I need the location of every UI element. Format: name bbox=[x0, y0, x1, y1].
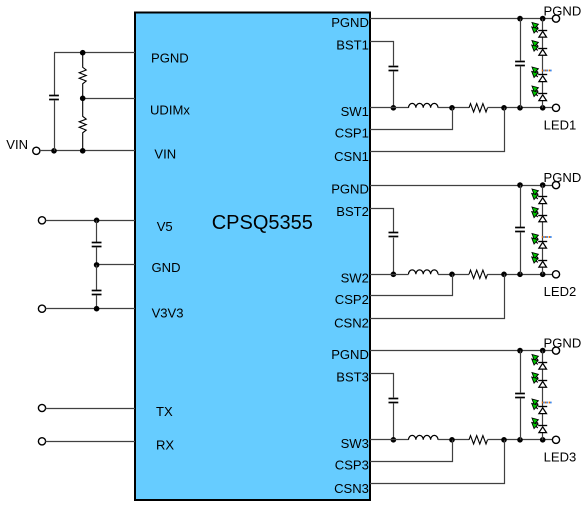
svg-text:CSN1: CSN1 bbox=[334, 149, 369, 164]
junction PGND rail / C-OUT1 bbox=[517, 16, 523, 22]
junction C-OUT3 / output bbox=[517, 437, 523, 443]
capacitor C-IN bbox=[54, 53, 56, 96]
LED D1.4 bbox=[532, 86, 548, 101]
junction VIN / C-IN bbox=[51, 148, 57, 154]
svg-text:BST2: BST2 bbox=[336, 204, 369, 219]
wire SW1 bbox=[370, 107, 409, 109]
capacitor C-OUT1 bbox=[520, 19, 522, 61]
junction UDIMx bbox=[80, 96, 86, 102]
svg-text:PGND: PGND bbox=[544, 336, 582, 351]
capacitor C-OUT2 bbox=[520, 185, 522, 227]
wire C-BST2 to SW2 bbox=[393, 238, 395, 275]
terminal PGND ch1 bbox=[552, 15, 559, 22]
wire CSN1 bbox=[370, 108, 505, 152]
terminal V3V3 bbox=[38, 305, 45, 312]
svg-text:CSP3: CSP3 bbox=[335, 458, 369, 473]
svg-text:PGND: PGND bbox=[331, 15, 369, 30]
wire PGND rail ch2 bbox=[370, 185, 553, 187]
junction BST cap / SW1 bbox=[391, 105, 397, 111]
junction PGND rail / C-OUT2 bbox=[517, 182, 523, 188]
wire BST1 bbox=[370, 42, 394, 66]
capacitor C-V5 bbox=[96, 220, 98, 242]
svg-text:RX: RX bbox=[156, 438, 174, 453]
wire PGND rail ch1 bbox=[370, 18, 553, 20]
ellipsis (more LEDs) ch2 bbox=[542, 236, 552, 238]
svg-text:PGND: PGND bbox=[544, 170, 582, 185]
wire L3 to R-CS3 bbox=[438, 439, 469, 441]
wire SW3 bbox=[370, 439, 409, 441]
LED D2.3 bbox=[532, 234, 548, 249]
wire V5 bbox=[45, 220, 135, 222]
svg-text:PGND: PGND bbox=[331, 181, 369, 196]
resistor R-CS3 (current sense) bbox=[469, 436, 488, 444]
junction C-OUT2 / output bbox=[517, 272, 523, 278]
svg-text:PGND: PGND bbox=[544, 4, 582, 19]
LED D2.2 bbox=[532, 207, 548, 222]
svg-text:PGND: PGND bbox=[331, 347, 369, 362]
wire RX bbox=[45, 441, 135, 443]
terminal PGND ch3 bbox=[552, 347, 559, 354]
junction LED string 2 anode bbox=[540, 272, 546, 278]
wire BST3 bbox=[370, 374, 394, 398]
inductor L1 bbox=[409, 103, 439, 107]
wire L2 to R-CS2 bbox=[438, 274, 469, 276]
LED D3.2 bbox=[532, 373, 548, 388]
junction PGND rail / LED string 2 bbox=[540, 182, 546, 188]
terminal LED3 bbox=[552, 436, 559, 443]
junction SW2 / CSP2 bbox=[449, 272, 455, 278]
wire VIN bbox=[40, 150, 135, 152]
capacitor C-OUT3 bbox=[520, 351, 522, 393]
svg-text:CSP2: CSP2 bbox=[335, 292, 369, 307]
junction PGND rail / LED string 3 bbox=[540, 348, 546, 354]
svg-text:LED1: LED1 bbox=[544, 118, 577, 133]
ellipsis (more LEDs) ch3 bbox=[542, 402, 552, 404]
terminal LED2 bbox=[552, 271, 559, 278]
junction BST cap / SW2 bbox=[391, 272, 397, 278]
wire BST2 bbox=[370, 209, 394, 233]
capacitor C-BST2 bbox=[389, 232, 399, 234]
junction LED string 1 anode bbox=[540, 105, 546, 111]
junction CSN3 sense node bbox=[501, 437, 507, 443]
wire R-CS1 to LED1 bbox=[488, 107, 553, 109]
junction V5 / C-V5 bbox=[94, 218, 100, 224]
svg-text:CSN2: CSN2 bbox=[334, 316, 369, 331]
junction CSN1 sense node bbox=[501, 105, 507, 111]
junction CSN2 sense node bbox=[501, 272, 507, 278]
wire CSP2 bbox=[370, 274, 453, 295]
junction C-OUT1 / output bbox=[517, 105, 523, 111]
junction VIN / R-UDIM-low bbox=[80, 148, 86, 154]
capacitor C-V3V3 bbox=[96, 265, 98, 290]
wire CSP1 bbox=[370, 108, 453, 130]
svg-text:LED2: LED2 bbox=[544, 284, 577, 299]
resistor R-CS2 (current sense) bbox=[469, 270, 488, 278]
wire V3V3 bbox=[45, 308, 135, 310]
wire C-BST1 to SW1 bbox=[393, 71, 395, 108]
wire R-CS2 to LED2 bbox=[488, 274, 553, 276]
wire CSN3 bbox=[370, 440, 505, 484]
terminal RX bbox=[38, 438, 45, 445]
svg-text:SW3: SW3 bbox=[341, 436, 369, 451]
wire LED string ch2 bbox=[542, 185, 544, 274]
wire GND bbox=[97, 264, 135, 266]
wire LED string ch3 bbox=[542, 351, 544, 440]
inductor L2 bbox=[409, 270, 439, 274]
ellipsis (more LEDs) ch1 bbox=[542, 70, 552, 72]
svg-text:SW1: SW1 bbox=[341, 104, 369, 119]
junction SW3 / CSP3 bbox=[449, 437, 455, 443]
LED D2.1 bbox=[532, 189, 548, 204]
resistor R-UDIM-upper bbox=[79, 53, 86, 99]
svg-text:LED3: LED3 bbox=[544, 450, 577, 465]
LED D1.3 bbox=[532, 67, 548, 82]
LED D2.4 bbox=[532, 253, 548, 268]
svg-text:V3V3: V3V3 bbox=[152, 306, 184, 321]
svg-text:VIN: VIN bbox=[154, 147, 176, 162]
LED D1.1 bbox=[532, 23, 548, 38]
svg-text:BST3: BST3 bbox=[336, 370, 369, 385]
svg-text:SW2: SW2 bbox=[341, 271, 369, 286]
wire PGND rail ch3 bbox=[370, 350, 553, 352]
terminal V5 bbox=[38, 217, 45, 224]
wire CSP3 bbox=[370, 440, 453, 462]
svg-text:CPSQ5355: CPSQ5355 bbox=[212, 212, 313, 234]
capacitor C-BST3 bbox=[389, 398, 399, 400]
IC U1 CPSQ5355 body bbox=[135, 13, 370, 501]
junction LED string 3 anode bbox=[540, 437, 546, 443]
terminal TX bbox=[38, 404, 45, 411]
junction GND / caps bbox=[94, 262, 100, 268]
terminal PGND ch2 bbox=[552, 182, 559, 189]
junction V3V3 / C-V3V3 bbox=[94, 306, 100, 312]
LED D3.3 bbox=[532, 399, 548, 414]
resistor R-CS1 (current sense) bbox=[469, 104, 488, 112]
LED D3.4 bbox=[532, 418, 548, 433]
wire TX bbox=[45, 408, 135, 410]
wire R-CS3 to LED3 bbox=[488, 439, 553, 441]
svg-text:VIN: VIN bbox=[6, 137, 28, 152]
junction PGND rail / C-OUT3 bbox=[517, 348, 523, 354]
svg-text:PGND: PGND bbox=[151, 51, 189, 66]
junction BST cap / SW3 bbox=[391, 437, 397, 443]
junction PGND rail / LED string 1 bbox=[540, 16, 546, 22]
wire PGND (top left) bbox=[54, 52, 135, 54]
wire C-BST3 to SW3 bbox=[393, 403, 395, 440]
svg-text:V5: V5 bbox=[157, 219, 173, 234]
svg-text:TX: TX bbox=[156, 404, 173, 419]
terminal VIN bbox=[33, 147, 40, 154]
inductor L3 bbox=[409, 435, 439, 439]
svg-text:GND: GND bbox=[152, 260, 181, 275]
svg-text:BST1: BST1 bbox=[336, 38, 369, 53]
svg-text:CSN3: CSN3 bbox=[334, 481, 369, 496]
LED D1.2 bbox=[532, 41, 548, 56]
svg-text:CSP1: CSP1 bbox=[335, 126, 369, 141]
svg-text:UDIMx: UDIMx bbox=[150, 102, 190, 117]
junction SW1 / CSP1 bbox=[449, 105, 455, 111]
wire LED string ch1 bbox=[542, 19, 544, 108]
wire L1 to R-CS1 bbox=[438, 107, 469, 109]
resistor R-UDIM-lower bbox=[79, 98, 86, 151]
wire CSN2 bbox=[370, 274, 505, 318]
wire SW2 bbox=[370, 274, 409, 276]
LED D3.1 bbox=[532, 355, 548, 370]
junction PGND / R-UDIM-up bbox=[80, 50, 86, 56]
terminal LED1 bbox=[552, 104, 559, 111]
wire UDIMx bbox=[83, 98, 135, 100]
capacitor C-BST1 bbox=[389, 66, 399, 68]
